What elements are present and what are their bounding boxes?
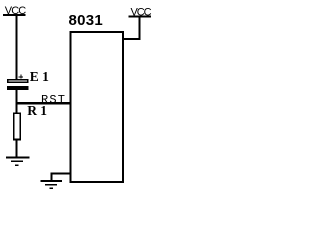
svg-text:R 1: R 1 [27, 103, 47, 118]
svg-text:E 1: E 1 [30, 69, 49, 84]
svg-text:8031: 8031 [69, 12, 104, 29]
